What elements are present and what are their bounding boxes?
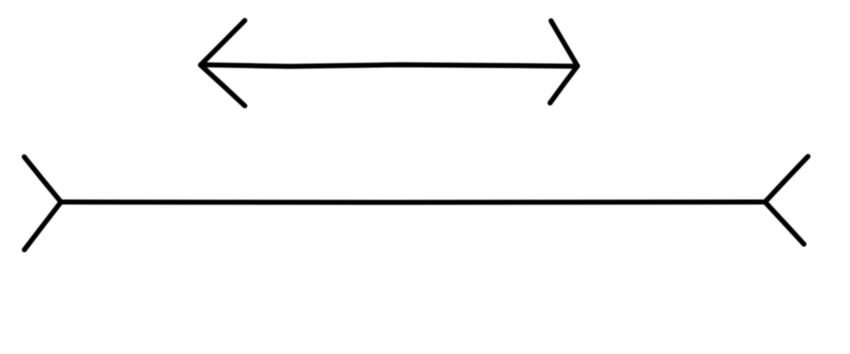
top left arrowhead upper fin — [201, 21, 245, 66]
top right arrowhead lower fin — [550, 66, 578, 103]
top arrow shaft (line with inward arrowheads) — [201, 65, 577, 67]
bottom left outward lower fin — [24, 202, 61, 250]
bottom left outward upper fin — [24, 157, 61, 202]
bottom right outward lower fin — [765, 202, 804, 244]
bottom right outward upper fin — [765, 156, 808, 202]
top left arrowhead lower fin — [201, 65, 245, 106]
top right arrowhead upper fin — [551, 21, 578, 66]
bottom line shaft — [61, 200, 765, 205]
